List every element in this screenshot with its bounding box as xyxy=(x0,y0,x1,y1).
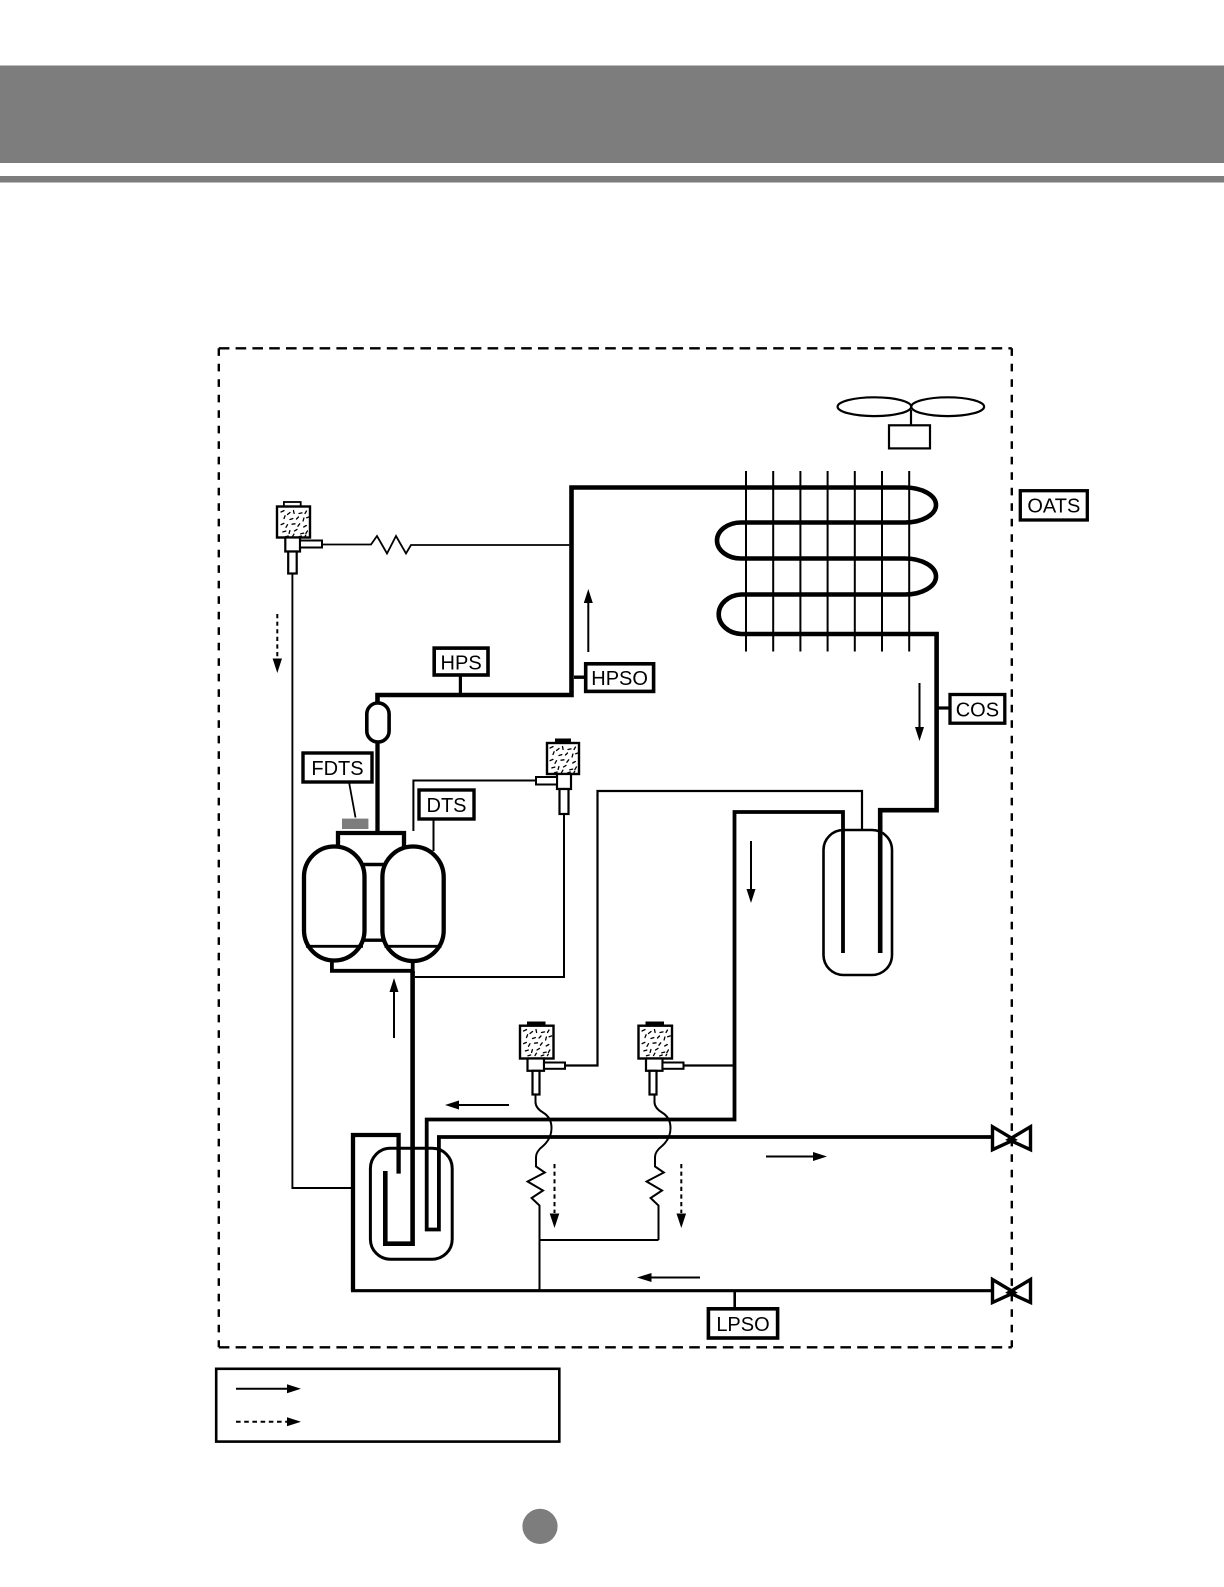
compressor body xyxy=(304,819,444,971)
wire: V1 outlet long line down to HX inlet pipe xyxy=(292,574,352,1189)
svg-text:OATS: OATS xyxy=(1027,496,1080,518)
wire: capillary junction line xyxy=(540,1239,659,1241)
wire: up arrow into compressor xyxy=(390,978,399,1038)
condenser fins xyxy=(746,471,909,652)
service valve SV2 (suction) xyxy=(993,1280,1031,1303)
compressor middle links xyxy=(362,863,385,866)
wire: TXV1 equalizer to receiver top xyxy=(565,791,862,1066)
wire: TXV2 equalizer to liquid drop line xyxy=(684,1064,735,1066)
wire: TXV2 capillary hop and coil xyxy=(647,1095,671,1241)
compressor left cylinder xyxy=(304,847,365,961)
service valve SV1 (liquid) xyxy=(993,1127,1031,1150)
gray header band xyxy=(0,66,1224,164)
wire: left arrow above liquid line xyxy=(445,1101,509,1110)
gray rule line xyxy=(0,176,1224,183)
compressor right cylinder xyxy=(382,847,443,962)
label HPS xyxy=(434,648,488,693)
receiver vessel xyxy=(824,830,893,975)
label HPSO xyxy=(574,664,654,692)
svg-text:FDTS: FDTS xyxy=(311,758,363,780)
svg-text:HPSO: HPSO xyxy=(591,668,648,690)
legend box xyxy=(216,1369,559,1442)
wire: down arrow on condenser outlet xyxy=(915,683,924,741)
HX suction return pipe from LPSO line xyxy=(353,1135,399,1291)
svg-text:DTS: DTS xyxy=(427,795,467,817)
page number dot xyxy=(522,1509,557,1544)
compressor head rect xyxy=(338,833,404,863)
dashed down arrow beside TXV1 xyxy=(550,1164,560,1228)
wire: V1 capillary with restrictor to riser xyxy=(322,536,569,554)
FDTS sensor pad xyxy=(342,819,368,829)
expansion valve TXV1 xyxy=(520,1022,565,1095)
svg-text:LPSO: LPSO xyxy=(716,1314,769,1336)
fan motor M1 xyxy=(889,410,930,448)
fan blades xyxy=(838,397,984,416)
wire: V2 equalizer to compressor head xyxy=(413,781,536,832)
expansion valve V2 (DTS TXV, middle) xyxy=(536,739,579,815)
label FDTS xyxy=(303,753,372,818)
wire: V2 capillary down to suction pipe xyxy=(415,814,564,977)
expansion valve TXV2 xyxy=(639,1022,684,1095)
svg-text:HPS: HPS xyxy=(441,652,482,674)
label DTS xyxy=(419,790,474,851)
HX accumulator vessel xyxy=(370,1148,452,1259)
wire: down arrow on liquid drop line xyxy=(747,841,756,903)
expansion valve V1 (top-left) xyxy=(277,502,322,574)
legend dashed arrow xyxy=(236,1421,289,1423)
wire: up arrow beside discharge riser xyxy=(584,589,593,652)
dashed down arrow beside TXV2 xyxy=(677,1164,687,1228)
wire: right arrow below liquid out line xyxy=(766,1152,827,1161)
legend solid arrow xyxy=(236,1388,289,1390)
muffler on discharge line xyxy=(367,703,389,833)
label OATS xyxy=(1020,491,1087,520)
label COS xyxy=(938,695,1005,724)
wire: suction pipe compressor to HX J-tube xyxy=(385,971,412,1244)
wire: LPSO suction run to service valve xyxy=(351,1289,991,1292)
label LPSO xyxy=(708,1292,777,1338)
compressor bottom sump xyxy=(332,959,413,971)
wire: left arrow above LPSO line xyxy=(637,1273,700,1282)
dashed system boundary xyxy=(219,348,1012,1347)
wire: liquid line from receiver through HX to service valve xyxy=(427,812,992,1230)
condenser coil serpentine xyxy=(378,488,937,954)
wire: TXV1 capillary hop and coil xyxy=(528,1095,552,1291)
dashed down arrow beside V1 line xyxy=(273,614,282,673)
svg-text:COS: COS xyxy=(956,699,999,721)
